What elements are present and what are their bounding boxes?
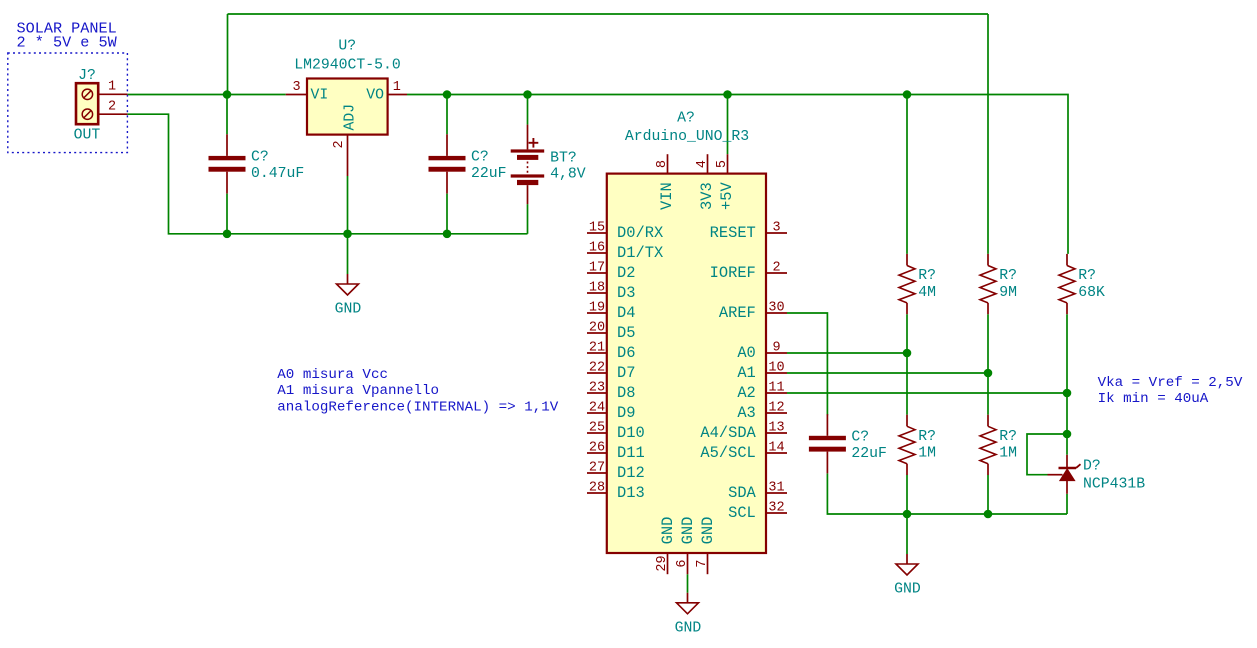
junction 12 [1063, 430, 1072, 439]
svg-text:1: 1 [393, 80, 401, 95]
svg-text:20: 20 [589, 321, 605, 336]
wire J1 pin1 to VI [127, 94, 285, 96]
svg-text:Arduino_UNO_R3: Arduino_UNO_R3 [625, 129, 749, 145]
resistor R3 68K [1059, 254, 1105, 314]
svg-text:J?: J? [78, 68, 96, 84]
svg-text:10: 10 [768, 361, 784, 376]
svg-text:D3: D3 [617, 284, 635, 302]
svg-text:3: 3 [292, 80, 300, 95]
svg-text:16: 16 [589, 241, 605, 256]
capacitor C1 [209, 134, 305, 193]
svg-text:LM2940CT-5.0: LM2940CT-5.0 [294, 58, 401, 74]
svg-text:+5V: +5V [718, 182, 736, 210]
junction 9 [903, 349, 912, 358]
svg-text:VIN: VIN [658, 182, 676, 210]
svg-text:R?: R? [999, 268, 1017, 284]
svg-text:A0: A0 [737, 344, 755, 362]
capacitor C2 [429, 134, 507, 193]
wire C1 top [226, 95, 228, 135]
wire top rail [228, 13, 989, 15]
svg-text:C?: C? [471, 150, 489, 166]
svg-text:VI: VI [311, 87, 329, 103]
pin 29 GND of A1 [667, 553, 669, 574]
svg-text:23: 23 [589, 381, 605, 396]
wire BT1 top [527, 95, 529, 125]
svg-text:8: 8 [655, 160, 670, 168]
wire C2 bottom [446, 194, 448, 234]
svg-text:1M: 1M [999, 446, 1017, 462]
svg-text:Vka = Vref = 2,5V: Vka = Vref = 2,5V [1098, 375, 1243, 391]
svg-text:32: 32 [768, 501, 784, 516]
svg-text:12: 12 [768, 401, 784, 416]
svg-text:analogReference(INTERNAL) => 1: analogReference(INTERNAL) => 1,1V [277, 399, 558, 415]
svg-text:R?: R? [918, 429, 936, 445]
pin 27 D12 of A1 [587, 472, 607, 474]
pin 5 +5V of A1 [727, 154, 729, 173]
ground GND right network [894, 554, 921, 598]
junction 1 [223, 90, 232, 99]
svg-text:2: 2 [108, 100, 116, 115]
wire C2 top [446, 95, 448, 135]
wire R 4M to R 1M [906, 314, 908, 415]
wire top-rail right drop to R 9M [987, 14, 989, 254]
svg-text:GND: GND [679, 517, 697, 545]
svg-text:IOREF: IOREF [710, 264, 756, 282]
svg-text:BT?: BT? [550, 151, 577, 167]
svg-text:D12: D12 [617, 464, 645, 482]
wire main +5V rail VO to right [407, 95, 1068, 254]
resistor R5 1M [980, 415, 1017, 475]
svg-text:21: 21 [589, 341, 605, 356]
pin 31 SDA of A1 [766, 492, 787, 494]
pin 17 D2 of A1 [587, 272, 607, 274]
svg-text:9: 9 [772, 341, 780, 356]
svg-text:RESET: RESET [710, 224, 756, 242]
pin 14 A5/SCL of A1 [766, 452, 787, 454]
svg-text:D10: D10 [617, 424, 645, 442]
wire rail to R 4M [906, 95, 908, 254]
svg-text:A3: A3 [737, 404, 755, 422]
svg-text:11: 11 [768, 381, 784, 396]
junction 7 [343, 230, 352, 239]
svg-text:R?: R? [1078, 268, 1096, 284]
battery BT1 4.8V [511, 125, 586, 205]
pin 28 D13 of A1 [587, 492, 607, 494]
arduino A1 body [607, 174, 766, 553]
svg-text:19: 19 [589, 301, 605, 316]
svg-text:D4: D4 [617, 304, 635, 322]
dashed solar panel box [8, 53, 128, 153]
pin 30 AREF of A1 [766, 312, 787, 314]
pin 26 D11 of A1 [587, 452, 607, 454]
pin 32 SCL of A1 [766, 512, 787, 514]
svg-text:U?: U? [338, 38, 356, 54]
junction 4 [723, 90, 732, 99]
svg-text:17: 17 [589, 261, 605, 276]
svg-text:C?: C? [851, 430, 869, 446]
svg-text:A5/SCL: A5/SCL [700, 444, 755, 462]
svg-text:30: 30 [768, 301, 784, 316]
svg-text:13: 13 [768, 421, 784, 436]
svg-text:1: 1 [108, 80, 116, 95]
svg-text:18: 18 [589, 281, 605, 296]
wire A0 net [787, 352, 907, 354]
wire J1 pin2 to bottom rail [127, 114, 527, 234]
pin 2 ADJ of U1 [347, 135, 349, 176]
ground GND under U1 [335, 274, 362, 318]
pin 18 D3 of A1 [587, 292, 607, 294]
svg-text:4M: 4M [918, 285, 936, 301]
wire D1 anode to bottom rail [1066, 494, 1068, 514]
svg-text:Ik min = 40uA: Ik min = 40uA [1098, 391, 1209, 407]
wire U1 ADJ down [347, 176, 349, 234]
pin 10 A1 of A1 [766, 372, 787, 374]
svg-text:A4/SDA: A4/SDA [700, 424, 756, 442]
junction 6 [223, 230, 232, 239]
pin 7 GND of A1 [707, 553, 709, 574]
pin 25 D10 of A1 [587, 432, 607, 434]
wire C1 bottom [226, 194, 228, 234]
svg-text:25: 25 [589, 421, 605, 436]
svg-text:9M: 9M [999, 285, 1017, 301]
pin 1 VO of U1 [388, 94, 407, 96]
svg-text:GND: GND [335, 302, 362, 318]
pin 23 D8 of A1 [587, 392, 607, 394]
svg-text:0.47uF: 0.47uF [251, 166, 304, 182]
junction 13 [903, 510, 912, 519]
pin 3 RESET of A1 [766, 232, 787, 234]
wire top-rail left drop [227, 14, 229, 95]
pin 4 3V3 of A1 [707, 154, 709, 173]
pin 22 D7 of A1 [587, 372, 607, 374]
svg-text:22uF: 22uF [471, 166, 507, 182]
svg-text:OUT: OUT [74, 128, 101, 144]
pin 9 A0 of A1 [766, 352, 787, 354]
svg-text:2 * 5V e 5W: 2 * 5V e 5W [17, 34, 118, 52]
svg-text:D?: D? [1083, 459, 1101, 475]
pin 21 D6 of A1 [587, 352, 607, 354]
pin 11 A2 of A1 [766, 392, 787, 394]
pin 13 A4/SDA of A1 [766, 432, 787, 434]
pin 6 GND of A1 [687, 553, 689, 574]
svg-text:D11: D11 [617, 444, 645, 462]
svg-text:D5: D5 [617, 324, 635, 342]
svg-text:22uF: 22uF [851, 446, 887, 462]
wire R 1M to bottom rail [906, 475, 908, 514]
svg-text:31: 31 [768, 481, 784, 496]
ground GND under A1 [675, 593, 702, 637]
svg-text:68K: 68K [1078, 285, 1105, 301]
junction 5 [903, 90, 912, 99]
capacitor C3 [809, 414, 887, 473]
svg-text:14: 14 [768, 441, 784, 456]
pin 2 of J1 [98, 113, 127, 115]
svg-text:GND: GND [659, 517, 677, 545]
svg-text:D9: D9 [617, 404, 635, 422]
wire D1 ref loop [1027, 434, 1067, 475]
svg-text:7: 7 [695, 559, 710, 567]
svg-text:SDA: SDA [728, 484, 756, 502]
svg-text:D8: D8 [617, 384, 635, 402]
pin 2 IOREF of A1 [766, 272, 787, 274]
svg-text:VO: VO [366, 87, 384, 103]
junction 14 [984, 510, 993, 519]
svg-text:C?: C? [251, 150, 269, 166]
pin 20 D5 of A1 [587, 332, 607, 334]
shunt regulator D1 NCP431B [1048, 455, 1146, 494]
wire R 1M b to bottom rail [987, 475, 989, 514]
svg-text:28: 28 [589, 481, 605, 496]
svg-text:1M: 1M [918, 446, 936, 462]
junction 11 [1063, 389, 1072, 398]
svg-text:5: 5 [715, 160, 730, 168]
svg-text:AREF: AREF [719, 304, 756, 322]
junction 3 [523, 90, 532, 99]
junction 10 [984, 369, 993, 378]
svg-text:29: 29 [655, 555, 670, 571]
wire AREF to C3 [787, 313, 827, 415]
svg-text:GND: GND [894, 582, 921, 598]
svg-text:D2: D2 [617, 264, 635, 282]
resistor R1 4M [899, 254, 936, 314]
svg-text:D0/RX: D0/RX [617, 224, 663, 242]
svg-text:A1: A1 [737, 364, 755, 382]
connector J1 [76, 83, 98, 124]
svg-text:27: 27 [589, 461, 605, 476]
pin 24 D9 of A1 [587, 412, 607, 414]
svg-text:GND: GND [699, 517, 717, 545]
pin 15 D0/RX of A1 [587, 232, 607, 234]
svg-text:D6: D6 [617, 344, 635, 362]
wire A2 net [787, 392, 1067, 394]
svg-text:A0 misura Vcc: A0 misura Vcc [277, 367, 388, 383]
svg-text:3V3: 3V3 [698, 182, 716, 210]
svg-text:A2: A2 [737, 384, 755, 402]
svg-text:3: 3 [772, 221, 780, 236]
svg-text:R?: R? [999, 429, 1017, 445]
svg-text:4,8V: 4,8V [550, 167, 586, 183]
svg-text:R?: R? [918, 268, 936, 284]
svg-text:NCP431B: NCP431B [1083, 477, 1145, 493]
svg-text:D7: D7 [617, 364, 635, 382]
junction 2 [443, 90, 452, 99]
svg-text:22: 22 [589, 361, 605, 376]
svg-text:D1/TX: D1/TX [617, 244, 663, 262]
svg-text:A1 misura Vpannello: A1 misura Vpannello [277, 383, 439, 399]
wire A1 GND drop [687, 574, 689, 593]
wire C3 to bottom rail 2 [827, 474, 1067, 515]
svg-text:D13: D13 [617, 484, 645, 502]
pin 8 VIN of A1 [667, 154, 669, 173]
wire right GND drop [906, 514, 908, 554]
pin 1 of J1 [98, 93, 127, 95]
svg-text:26: 26 [589, 441, 605, 456]
svg-text:2: 2 [332, 140, 347, 148]
svg-text:A?: A? [677, 111, 695, 127]
pin 19 D4 of A1 [587, 312, 607, 314]
junction 8 [443, 230, 452, 239]
svg-text:2: 2 [772, 261, 780, 276]
resistor R2 9M [980, 254, 1017, 314]
svg-text:15: 15 [589, 221, 605, 236]
wire R 9M to R 1M b [987, 314, 989, 415]
svg-text:GND: GND [675, 620, 702, 636]
wire U1 gnd drop [347, 234, 349, 274]
svg-text:ADJ: ADJ [343, 104, 359, 131]
svg-text:4: 4 [695, 160, 710, 168]
svg-text:SCL: SCL [728, 504, 756, 522]
pin 3 VI of U1 [286, 94, 307, 96]
wire A1 net [787, 372, 988, 374]
svg-text:6: 6 [675, 559, 690, 567]
wire R 68K to D1 [1066, 314, 1068, 455]
regulator U1 body [307, 79, 388, 135]
pin 16 D1/TX of A1 [587, 252, 607, 254]
svg-text:24: 24 [589, 401, 605, 416]
resistor R4 1M [899, 415, 936, 475]
wire BT1 bottom [527, 204, 529, 234]
wire +5V pin A1 [727, 95, 729, 155]
pin 12 A3 of A1 [766, 412, 787, 414]
